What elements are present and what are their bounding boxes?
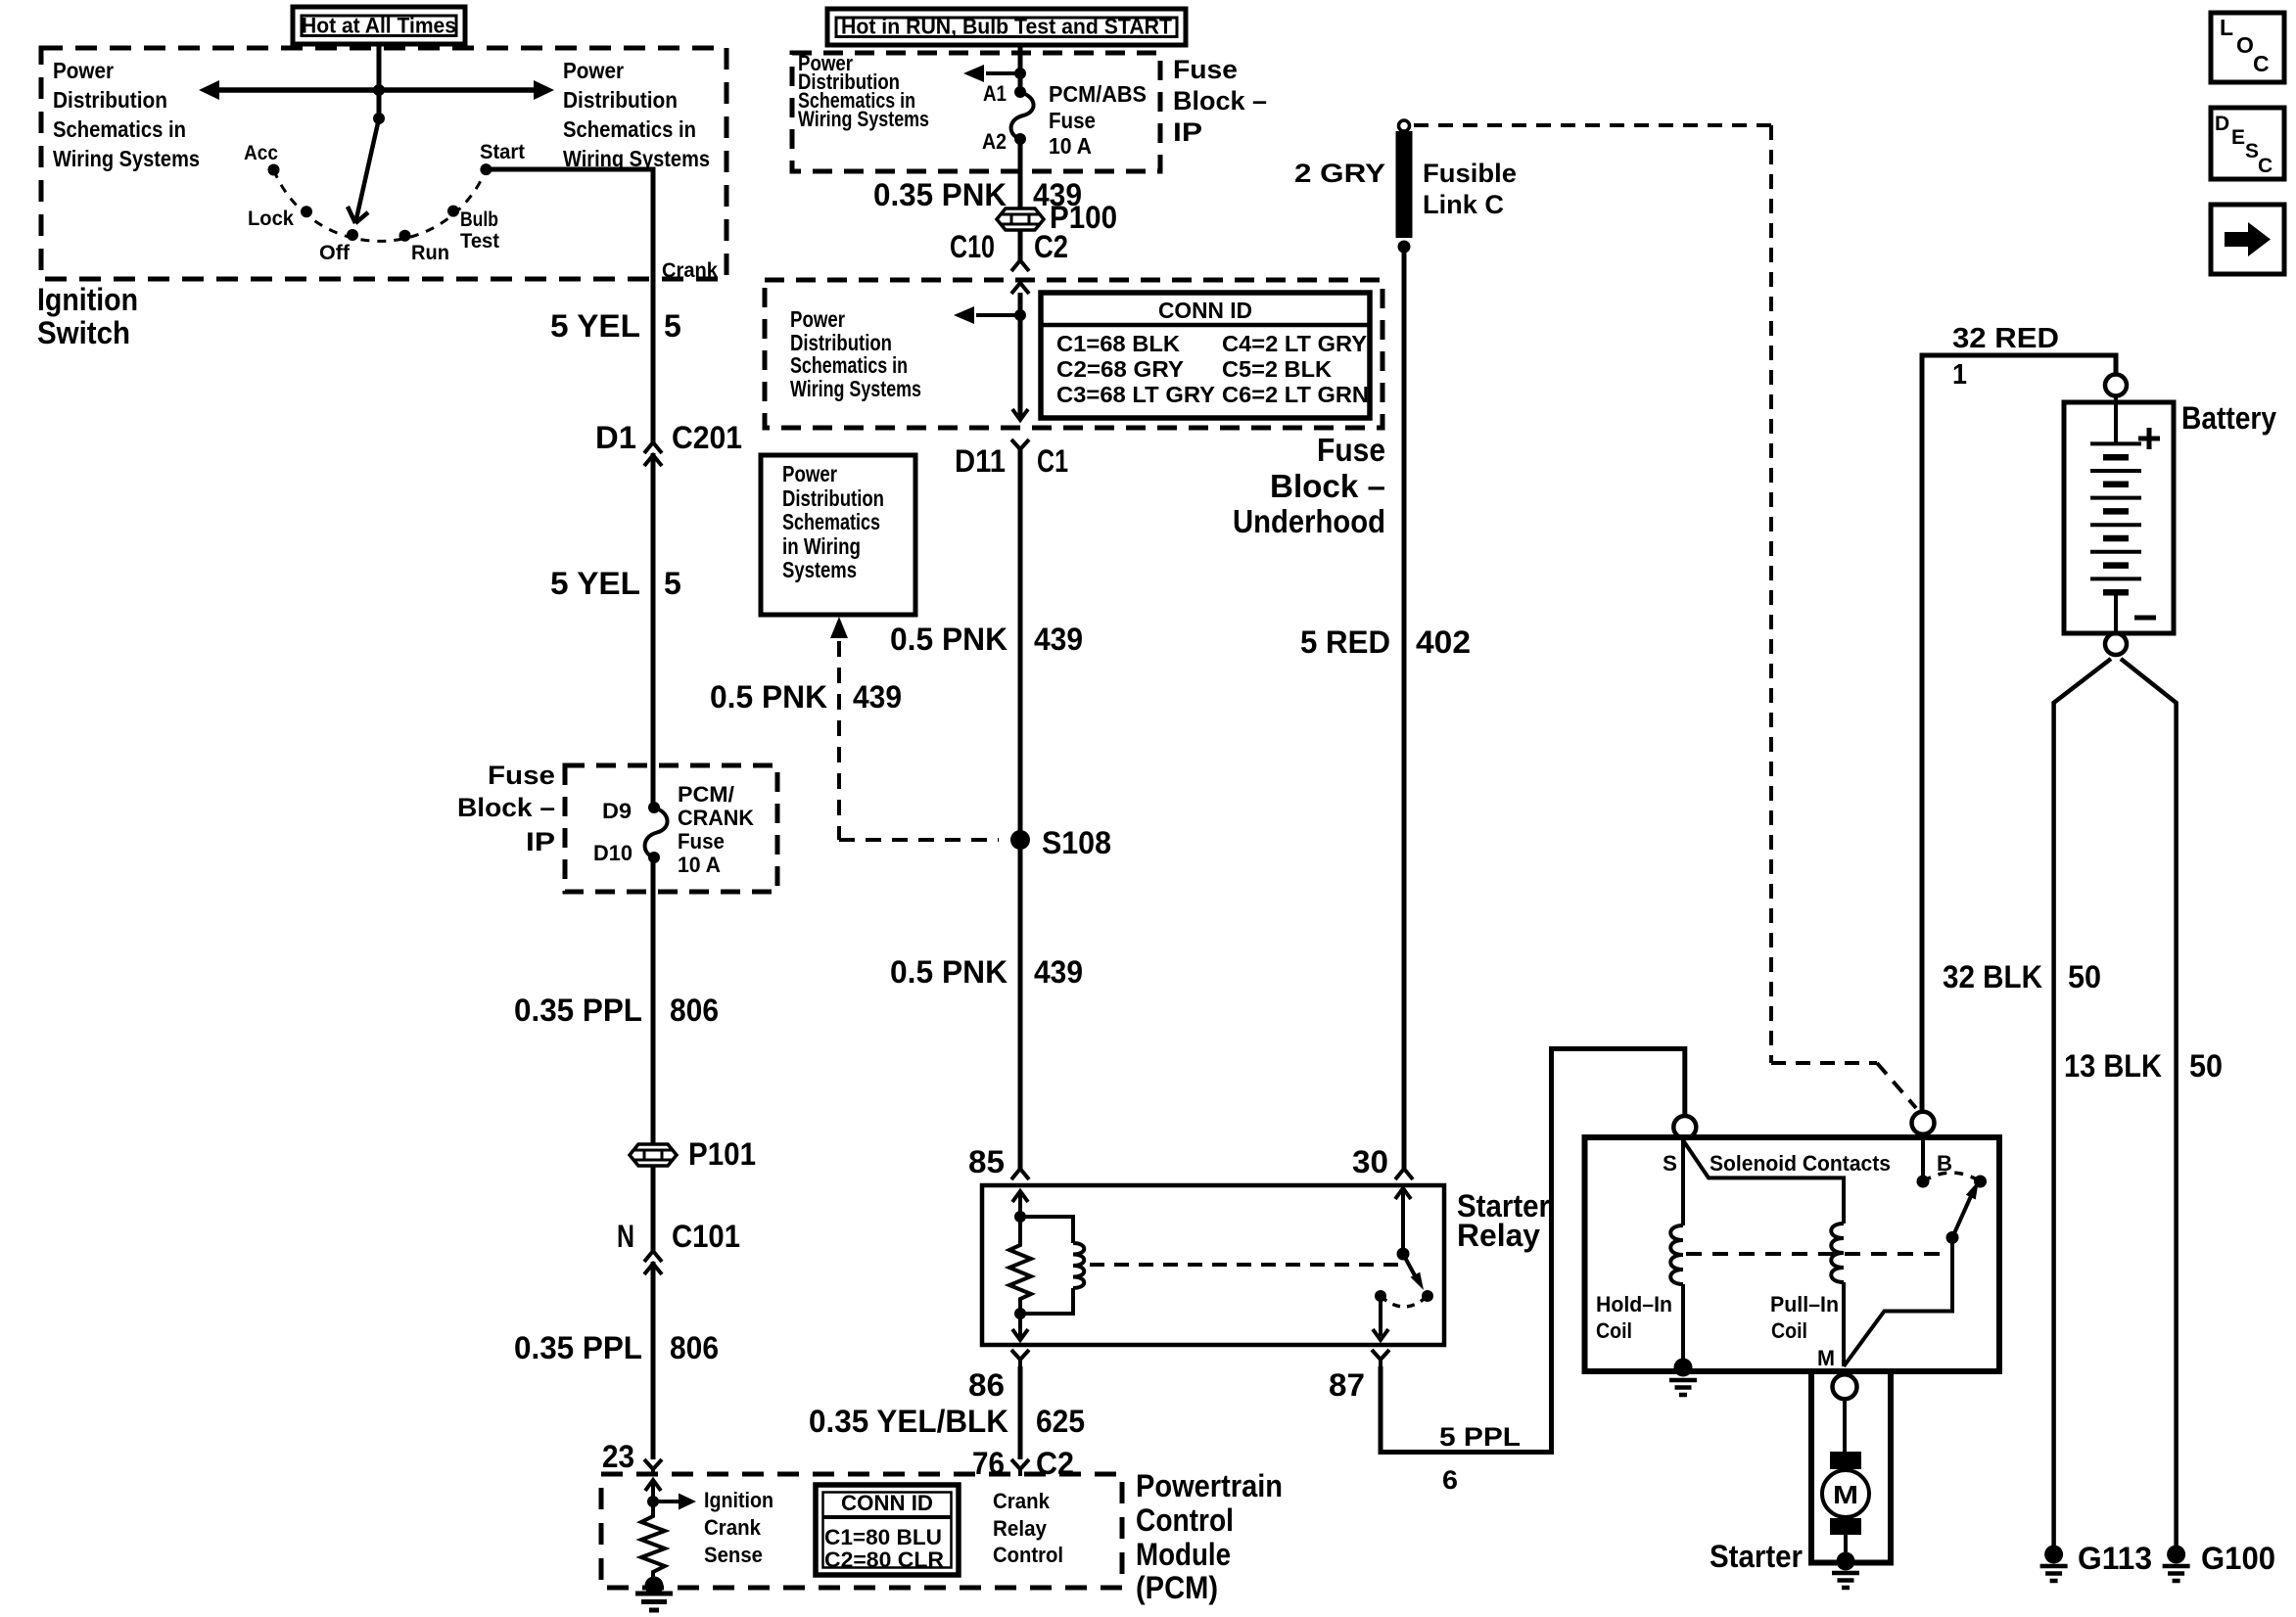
wire: 5 RED run to relay 30 xyxy=(1402,247,1407,1169)
svg-text:Coil: Coil xyxy=(1596,1318,1632,1343)
svg-text:Off: Off xyxy=(319,242,351,264)
relay dashed actuation line xyxy=(1090,1263,1401,1267)
svg-text:Underhood: Underhood xyxy=(1233,503,1385,539)
wire: crank run, upper section xyxy=(651,279,656,442)
svg-text:Block –: Block – xyxy=(1173,86,1267,115)
svg-text:M: M xyxy=(1833,1480,1858,1509)
wire: 0.35 PNK to P100 xyxy=(1018,139,1023,208)
dashed arrow up into power distribution box xyxy=(830,617,848,638)
arrow legend box xyxy=(2211,205,2284,274)
svg-text:0.5 PNK: 0.5 PNK xyxy=(890,622,1007,657)
connector D11 / C1 xyxy=(1011,439,1029,456)
svg-text:Schematics in: Schematics in xyxy=(790,352,908,378)
svg-text:PCM/ABS: PCM/ABS xyxy=(1049,81,1147,107)
battery + terminal mark xyxy=(2138,428,2160,449)
svg-text:Fuse: Fuse xyxy=(1173,55,1238,84)
svg-text:5 PPL: 5 PPL xyxy=(1439,1422,1521,1452)
wire: 87 to solenoid S (5 PPL) xyxy=(1381,1049,1685,1453)
solenoid terminal S xyxy=(1673,1116,1696,1138)
svg-text:87: 87 xyxy=(1329,1367,1365,1403)
relay switch blade xyxy=(1397,1248,1410,1261)
wire: 439 run from C1 to S108 xyxy=(1018,449,1023,1169)
solenoid dashed plunger line xyxy=(1686,1252,1950,1256)
svg-text:0.35 PPL: 0.35 PPL xyxy=(514,993,642,1028)
svg-text:6: 6 xyxy=(1442,1465,1458,1495)
svg-text:IP: IP xyxy=(526,827,555,856)
svg-text:(PCM): (PCM) xyxy=(1136,1570,1218,1605)
wire: 32 RED battery feed xyxy=(1922,355,2116,1112)
ignition switch dashed box xyxy=(41,48,726,279)
svg-text:Powertrain: Powertrain xyxy=(1136,1468,1283,1503)
svg-text:E: E xyxy=(2231,126,2245,149)
svg-text:Schematics in: Schematics in xyxy=(563,116,696,142)
ground: solenoid hold-in coil xyxy=(1674,1359,1693,1377)
svg-text:A1: A1 xyxy=(983,81,1007,106)
svg-text:5 YEL: 5 YEL xyxy=(550,566,640,601)
power distribution schematics solid box xyxy=(761,455,915,615)
svg-text:C1: C1 xyxy=(1037,443,1068,479)
svg-text:Wiring Systems: Wiring Systems xyxy=(798,107,929,131)
solenoid contact switch xyxy=(1917,1176,1930,1188)
svg-text:5 RED: 5 RED xyxy=(1300,624,1390,660)
svg-text:Distribution: Distribution xyxy=(563,87,678,113)
svg-text:76: 76 xyxy=(972,1446,1005,1481)
svg-text:Lock: Lock xyxy=(248,208,294,230)
svg-text:Ignition: Ignition xyxy=(37,282,138,317)
svg-text:Fuse: Fuse xyxy=(1317,432,1385,468)
solenoid blade wire to M xyxy=(1844,1237,1952,1366)
svg-text:806: 806 xyxy=(670,993,719,1028)
svg-text:Bulb: Bulb xyxy=(460,208,498,231)
svg-text:402: 402 xyxy=(1416,624,1471,660)
svg-text:13 BLK: 13 BLK xyxy=(2064,1048,2162,1084)
svg-text:C2: C2 xyxy=(1034,229,1068,264)
svg-text:Wiring Systems: Wiring Systems xyxy=(53,146,200,171)
arrow to power distribution (middle) xyxy=(1014,68,1026,79)
svg-text:0.35 PPL: 0.35 PPL xyxy=(514,1330,642,1365)
node Off xyxy=(347,229,358,241)
PCM CONN ID table xyxy=(816,1485,959,1575)
PCM ignition crank sense input xyxy=(651,1480,655,1501)
svg-text:Coil: Coil xyxy=(1771,1318,1807,1343)
svg-text:10 A: 10 A xyxy=(1049,133,1092,159)
relay pin 85 xyxy=(1011,1169,1029,1179)
relay pin 86 xyxy=(1011,1350,1029,1366)
splice S108 xyxy=(1010,830,1030,850)
svg-text:D10: D10 xyxy=(593,841,633,865)
wire: Start to Crank output xyxy=(486,169,653,279)
svg-text:C: C xyxy=(2253,51,2270,76)
svg-text:Switch: Switch xyxy=(37,315,130,350)
svg-text:CRANK: CRANK xyxy=(678,806,754,830)
LOC legend box xyxy=(2211,13,2284,82)
svg-text:Crank: Crank xyxy=(704,1515,762,1540)
svg-text:Systems: Systems xyxy=(782,557,857,582)
svg-text:0.5 PNK: 0.5 PNK xyxy=(710,679,827,715)
svg-text:C2=68 GRY: C2=68 GRY xyxy=(1056,356,1184,382)
relay pin 30 xyxy=(1395,1169,1413,1179)
svg-text:Fusible: Fusible xyxy=(1423,159,1517,188)
svg-text:Link C: Link C xyxy=(1423,190,1504,219)
node Bulb Test xyxy=(447,206,459,217)
hold-in coil xyxy=(1681,1140,1685,1225)
solenoid S internal wire to pull-in coil xyxy=(1683,1140,1844,1224)
svg-text:Power: Power xyxy=(782,461,837,486)
svg-text:Starter: Starter xyxy=(1710,1539,1803,1574)
node Run xyxy=(399,230,411,242)
svg-text:Battery: Battery xyxy=(2181,400,2276,436)
svg-text:1: 1 xyxy=(1952,359,1967,391)
svg-text:86: 86 xyxy=(968,1367,1005,1403)
arrow down to D11 xyxy=(1012,409,1028,420)
svg-text:Schematics: Schematics xyxy=(782,509,880,534)
wire: power distribution bus (double arrow) xyxy=(218,87,535,93)
svg-text:A2: A2 xyxy=(982,129,1007,154)
arrow to power distribution (underhood) xyxy=(1014,309,1026,321)
svg-text:L: L xyxy=(2220,15,2233,40)
ground G113 xyxy=(2044,1546,2063,1564)
svg-text:C6=2 LT GRN: C6=2 LT GRN xyxy=(1222,382,1369,407)
svg-text:23: 23 xyxy=(602,1439,634,1474)
svg-text:C2=80 CLR: C2=80 CLR xyxy=(824,1548,944,1572)
CONN ID table (underhood) xyxy=(1041,293,1370,418)
svg-text:D: D xyxy=(2215,113,2229,135)
wire: 0.35 PPL run to PCM pin 23 xyxy=(651,1262,656,1459)
wire: crank run to fuse block IP xyxy=(651,453,656,808)
svg-text:Hot in RUN, Bulb Test and STAR: Hot in RUN, Bulb Test and START xyxy=(841,15,1173,39)
fuse block IP dashed box (middle) xyxy=(792,53,1160,171)
svg-text:Ignition: Ignition xyxy=(704,1488,773,1512)
svg-text:CONN ID: CONN ID xyxy=(841,1491,933,1515)
svg-text:D11: D11 xyxy=(955,443,1006,479)
svg-text:Fuse: Fuse xyxy=(1049,108,1096,133)
connector P101 xyxy=(630,1144,677,1166)
ground: starter motor xyxy=(1837,1552,1855,1571)
svg-text:0.35 PNK: 0.35 PNK xyxy=(873,177,1007,212)
dashed wire: fusible link to solenoid B xyxy=(1414,123,1771,127)
svg-text:N: N xyxy=(617,1219,634,1254)
svg-text:30: 30 xyxy=(1352,1144,1388,1179)
svg-text:M: M xyxy=(1817,1346,1835,1370)
pull-in coil xyxy=(1831,1224,1844,1282)
svg-text:S: S xyxy=(1663,1151,1677,1176)
svg-text:Distribution: Distribution xyxy=(782,485,884,511)
wire: hot feed from header into switch xyxy=(377,42,382,118)
wire: 86 to PCM 76 xyxy=(1018,1366,1023,1459)
header box: Hot at All Times xyxy=(293,7,465,44)
svg-text:Run: Run xyxy=(411,242,449,264)
svg-text:Crank: Crank xyxy=(662,259,718,282)
svg-text:0.5 PNK: 0.5 PNK xyxy=(890,954,1007,990)
svg-text:IP: IP xyxy=(1173,117,1202,147)
junction dot on bus xyxy=(373,84,385,96)
svg-text:PCM/: PCM/ xyxy=(678,782,734,807)
battery - terminal mark xyxy=(2134,616,2156,621)
svg-text:Test: Test xyxy=(460,230,499,253)
resistor: ignition crank sense xyxy=(641,1501,665,1579)
svg-text:Power: Power xyxy=(53,58,114,83)
fuse block underhood dashed box xyxy=(765,280,1382,428)
wire: P100 to C2 xyxy=(1018,230,1023,260)
svg-text:Control: Control xyxy=(1136,1502,1234,1538)
svg-text:S108: S108 xyxy=(1042,825,1111,860)
PCM dashed box xyxy=(601,1474,1122,1588)
svg-text:32 BLK: 32 BLK xyxy=(1943,959,2042,994)
wire: P101 to C101 xyxy=(651,1166,656,1251)
fuse PCM/CRANK 10 A xyxy=(648,802,660,813)
svg-text:85: 85 xyxy=(968,1144,1005,1179)
svg-text:2 GRY: 2 GRY xyxy=(1294,159,1385,188)
relay coil and resistor xyxy=(1014,1211,1026,1223)
svg-text:C1=68 BLK: C1=68 BLK xyxy=(1056,331,1180,356)
svg-text:806: 806 xyxy=(670,1330,719,1365)
fusible link C xyxy=(1399,120,1410,131)
svg-text:CONN ID: CONN ID xyxy=(1158,298,1252,323)
svg-text:50: 50 xyxy=(2189,1048,2223,1084)
svg-text:5: 5 xyxy=(664,308,681,344)
svg-text:G113: G113 xyxy=(2078,1541,2152,1576)
svg-text:C10: C10 xyxy=(950,229,995,264)
svg-text:625: 625 xyxy=(1036,1404,1085,1439)
DESC legend box xyxy=(2211,108,2284,179)
wire into underhood box xyxy=(1018,293,1023,420)
ignition switch position arc xyxy=(274,169,487,241)
svg-text:Solenoid Contacts: Solenoid Contacts xyxy=(1710,1151,1891,1176)
svg-text:Start: Start xyxy=(480,141,525,163)
svg-text:C4=2 LT GRY: C4=2 LT GRY xyxy=(1222,331,1367,356)
svg-text:Relay: Relay xyxy=(993,1516,1048,1541)
svg-text:O: O xyxy=(2236,32,2254,58)
node Start xyxy=(480,163,492,175)
svg-text:50: 50 xyxy=(2068,959,2101,994)
svg-text:Wiring Systems: Wiring Systems xyxy=(790,376,921,401)
node Lock xyxy=(301,206,312,217)
svg-text:Sense: Sense xyxy=(704,1543,763,1567)
connector P100 xyxy=(997,208,1044,230)
svg-text:S: S xyxy=(2245,140,2259,162)
svg-text:439: 439 xyxy=(1034,622,1083,657)
svg-text:D1: D1 xyxy=(595,420,636,455)
svg-text:C: C xyxy=(2258,155,2273,177)
svg-text:32 RED: 32 RED xyxy=(1952,323,2059,354)
svg-text:Module: Module xyxy=(1136,1537,1231,1572)
svg-text:0.35 YEL/BLK: 0.35 YEL/BLK xyxy=(809,1404,1008,1439)
svg-text:10 A: 10 A xyxy=(678,853,721,877)
svg-text:5: 5 xyxy=(664,566,681,601)
starter motor internals xyxy=(1843,1399,1847,1452)
starter relay box xyxy=(982,1185,1444,1345)
svg-text:C3=68 LT GRY: C3=68 LT GRY xyxy=(1056,382,1215,407)
svg-text:Block –: Block – xyxy=(1270,468,1385,504)
svg-text:Relay: Relay xyxy=(1457,1218,1540,1253)
svg-text:Pull–In: Pull–In xyxy=(1770,1292,1839,1317)
svg-text:Fuse: Fuse xyxy=(488,761,555,790)
svg-text:C1=80 BLU: C1=80 BLU xyxy=(824,1525,942,1549)
starter motor housing xyxy=(1811,1369,1891,1563)
ignition switch rotor arrow xyxy=(373,113,385,124)
svg-text:5 YEL: 5 YEL xyxy=(550,308,640,344)
svg-text:C101: C101 xyxy=(672,1219,740,1254)
relay pin 87 xyxy=(1372,1350,1389,1366)
svg-text:C201: C201 xyxy=(672,420,742,455)
svg-text:C5=2 BLK: C5=2 BLK xyxy=(1222,356,1332,382)
svg-text:Block –: Block – xyxy=(457,793,555,822)
ground G100 xyxy=(2167,1546,2185,1564)
svg-text:in Wiring: in Wiring xyxy=(782,533,861,559)
fuse block IP dashed box (left) xyxy=(565,765,777,892)
svg-text:P101: P101 xyxy=(688,1136,756,1172)
svg-text:Power: Power xyxy=(790,306,845,332)
ground: PCM internal xyxy=(645,1577,664,1595)
svg-text:439: 439 xyxy=(1034,954,1083,990)
svg-text:Power: Power xyxy=(563,58,624,83)
svg-text:439: 439 xyxy=(853,679,902,715)
header box: Hot in RUN, Bulb Test and START xyxy=(827,9,1186,45)
svg-text:D9: D9 xyxy=(602,799,632,823)
svg-text:Distribution: Distribution xyxy=(53,87,167,113)
svg-text:Crank: Crank xyxy=(993,1489,1051,1513)
fuse PCM/ABS 10 A xyxy=(1014,86,1026,98)
solenoid box xyxy=(1585,1137,2000,1371)
wire: 0.35 PPL run to P101 xyxy=(651,857,656,1144)
svg-text:Hot at All Times: Hot at All Times xyxy=(302,14,456,38)
svg-text:Schematics in: Schematics in xyxy=(53,116,186,142)
svg-text:Acc: Acc xyxy=(244,142,278,164)
battery xyxy=(2105,375,2127,396)
node Acc xyxy=(268,164,280,176)
wire: battery negative split xyxy=(2054,659,2111,1549)
svg-text:G100: G100 xyxy=(2201,1541,2275,1576)
svg-text:Hold–In: Hold–In xyxy=(1596,1292,1672,1317)
wire: hot in run feed xyxy=(1018,43,1023,92)
svg-text:Fuse: Fuse xyxy=(678,829,725,854)
svg-text:C2: C2 xyxy=(1036,1446,1074,1481)
svg-text:Control: Control xyxy=(993,1543,1063,1567)
